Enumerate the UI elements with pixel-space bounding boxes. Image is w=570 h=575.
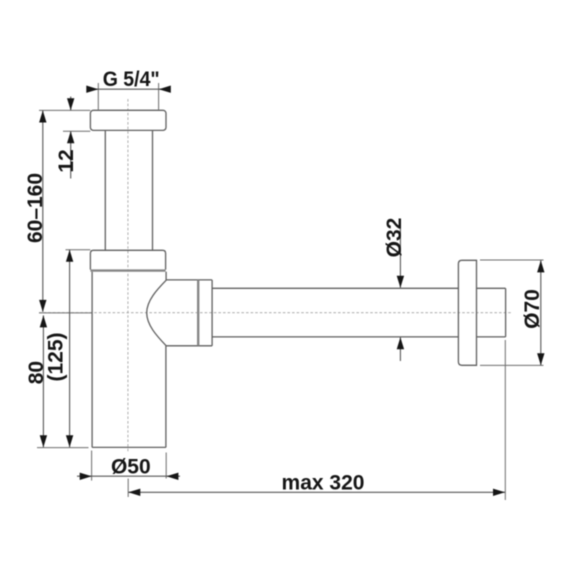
svg-text:Ø70: Ø70: [521, 289, 544, 329]
ext line centerline bottom: [127, 479, 129, 498]
dim line 80: [42, 315, 44, 447]
arrow max320 right: [493, 489, 505, 496]
horizontal pipe top: [212, 287, 458, 289]
body bottom edge: [92, 446, 166, 448]
arrow 80 top: [40, 315, 47, 327]
arrow D50 left: [80, 473, 92, 480]
arrow D32 bottom: [397, 337, 404, 349]
svg-text:60–160: 60–160: [24, 173, 47, 243]
wall flange: [458, 260, 476, 365]
wall pipe bottom: [477, 336, 506, 338]
wall pipe right edge: [505, 288, 507, 337]
dim line 12 bottom: [70, 131, 72, 178]
ext line G5/4 left: [97, 83, 99, 110]
ext line G5/4 right: [158, 83, 160, 110]
dim line G5/4: [87, 88, 171, 90]
svg-text:Ø50: Ø50: [111, 456, 151, 479]
dim line 60-160: [42, 111, 44, 312]
ext line flange70 bottom: [480, 364, 544, 366]
ext line body bottom left: [37, 447, 89, 449]
arrow max320 left: [128, 489, 140, 496]
centerline vertical: [127, 99, 129, 453]
svg-text:12: 12: [55, 149, 78, 172]
dim line 125: [69, 250, 71, 447]
centerline left solid segment: [39, 312, 92, 314]
wall pipe top: [477, 287, 506, 289]
dim line D70: [540, 260, 542, 365]
body left edge: [91, 272, 93, 448]
inlet pipe right edge: [152, 130, 154, 250]
arrow D32 top: [397, 276, 404, 288]
dim line D32 bottom: [399, 337, 401, 361]
dim line D50: [77, 475, 180, 477]
horizontal pipe bottom: [212, 336, 458, 338]
ext line max320 right vertical: [504, 340, 506, 500]
arrow 12 bottom: [67, 131, 74, 143]
centerline horizontal: [39, 312, 512, 314]
svg-text:Ø32: Ø32: [383, 218, 406, 258]
arrow 125 bottom: [66, 435, 73, 447]
collar: [90, 250, 165, 269]
arrow 12 top: [67, 98, 74, 110]
ext line collar top left: [66, 249, 91, 251]
nut thick band: [197, 280, 199, 346]
top flange: [90, 110, 166, 130]
svg-text:G 5/4": G 5/4": [103, 68, 160, 91]
dim line 12 top: [70, 97, 72, 111]
collar thick band: [90, 269, 165, 271]
arrow 80 bottom: [40, 435, 47, 447]
arrow G5/4 right: [159, 86, 171, 93]
ext line flange top left: [39, 109, 90, 111]
arrow D70 top: [537, 260, 544, 272]
body right edge upper: [165, 272, 167, 281]
ext line flange bottom left: [63, 130, 90, 132]
svg-text:max 320: max 320: [282, 472, 365, 495]
inlet pipe left edge: [104, 130, 106, 250]
arrow G5/4 left: [86, 86, 98, 93]
ext line flange70 top: [480, 259, 544, 261]
arrow D70 bottom: [537, 353, 544, 365]
dim line D32 top: [399, 222, 401, 288]
arrow D50 right: [166, 473, 178, 480]
ext line body bottom-right vertical: [165, 453, 167, 479]
ext line body bottom-left vertical: [91, 451, 93, 481]
dim line max320: [128, 491, 505, 493]
body right edge lower: [165, 346, 167, 448]
arrow 125 top: [66, 250, 73, 262]
elbow top edge: [166, 279, 212, 281]
elbow bottom edge: [166, 345, 212, 347]
arrow 60-160 top: [39, 111, 46, 123]
arrow 60-160 bottom: [39, 300, 46, 312]
elbow curve: [147, 280, 167, 346]
nut right edge: [211, 280, 213, 346]
svg-text:(125): (125): [44, 332, 67, 381]
